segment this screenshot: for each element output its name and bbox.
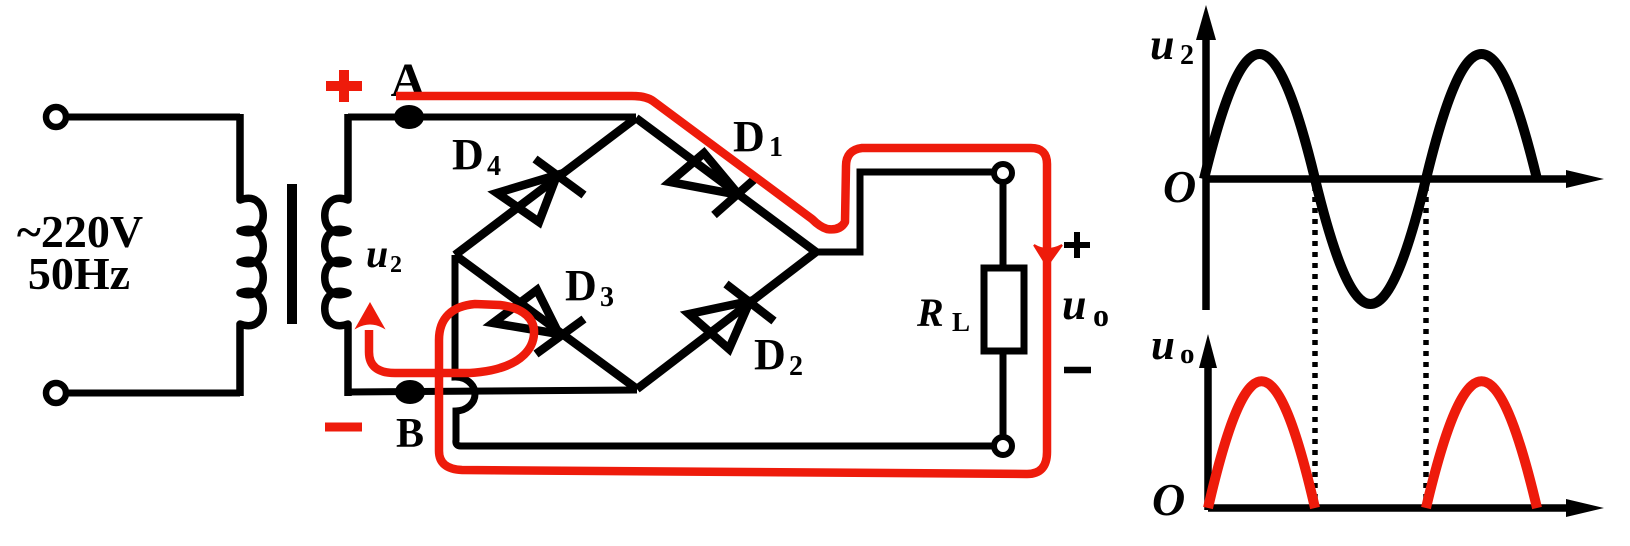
svg-text:B: B xyxy=(396,411,424,457)
load terminal top xyxy=(994,164,1012,182)
graph u2 y-axis xyxy=(1202,34,1210,310)
transformer core xyxy=(287,184,297,324)
graph uo y-axis xyxy=(1204,362,1212,510)
dotted line left xyxy=(1312,186,1318,505)
diode D2 xyxy=(689,284,774,349)
svg-text:50Hz: 50Hz xyxy=(28,248,130,299)
svg-text:u: u xyxy=(366,231,388,276)
svg-text:R: R xyxy=(916,290,944,335)
bridge branch bottom-right xyxy=(637,252,816,389)
svg-text:2: 2 xyxy=(1180,40,1194,71)
wire primary bottom xyxy=(67,390,240,397)
source terminal top xyxy=(46,107,66,127)
red arrow down near load xyxy=(1034,245,1062,266)
graph uo red pulse 2 xyxy=(1426,381,1537,508)
wire load bottom xyxy=(1000,351,1007,437)
red arrow up near u2 xyxy=(357,304,383,327)
svg-text:D: D xyxy=(733,112,765,161)
label minus red xyxy=(325,423,362,432)
graph uo x-axis xyxy=(1208,504,1570,512)
wire left vertex down with hop over B wire xyxy=(455,255,995,446)
source terminal bottom xyxy=(46,383,66,403)
wire secondary top to bridge xyxy=(348,114,636,121)
svg-text:D: D xyxy=(452,130,484,179)
label + black xyxy=(1064,232,1090,258)
wire secondary bottom to bridge xyxy=(348,390,637,392)
wire right vertex to load top xyxy=(816,172,994,252)
node B xyxy=(395,380,425,404)
node A xyxy=(394,105,424,129)
svg-text:u: u xyxy=(1151,322,1175,369)
graph uo red pulse 1 xyxy=(1208,381,1315,508)
wire primary top xyxy=(67,114,240,121)
svg-text:o: o xyxy=(1093,297,1109,333)
diode D1 xyxy=(670,153,757,215)
bridge branch top-right xyxy=(636,118,816,252)
svg-text:D: D xyxy=(754,330,786,379)
diode D3 xyxy=(493,290,584,354)
transformer secondary winding u2 xyxy=(325,114,348,396)
bridge branch left-top xyxy=(455,118,636,255)
bridge branch left-bottom xyxy=(455,255,637,389)
dotted line right xyxy=(1423,186,1429,505)
transformer primary winding xyxy=(240,114,263,396)
wire load top xyxy=(1000,182,1007,268)
svg-text:4: 4 xyxy=(487,151,501,182)
resistor RL xyxy=(984,268,1024,351)
svg-text:o: o xyxy=(1180,338,1195,370)
svg-text:O: O xyxy=(1152,474,1185,525)
svg-text:2: 2 xyxy=(789,351,803,382)
svg-text:2: 2 xyxy=(390,252,402,278)
red current path main loop xyxy=(369,96,1047,474)
svg-text:1: 1 xyxy=(769,132,783,163)
load terminal bottom xyxy=(994,437,1012,455)
graph u2 sine wave xyxy=(1204,54,1537,304)
label + red xyxy=(326,70,362,102)
svg-text:O: O xyxy=(1163,161,1196,212)
graph u2 x-axis xyxy=(1206,175,1570,183)
label minus black xyxy=(1064,367,1091,374)
diode D4 xyxy=(497,159,584,222)
svg-text:D: D xyxy=(565,261,597,310)
svg-text:u: u xyxy=(1062,280,1086,329)
svg-text:u: u xyxy=(1150,20,1174,69)
svg-text:3: 3 xyxy=(600,282,614,313)
svg-text:L: L xyxy=(952,307,970,337)
